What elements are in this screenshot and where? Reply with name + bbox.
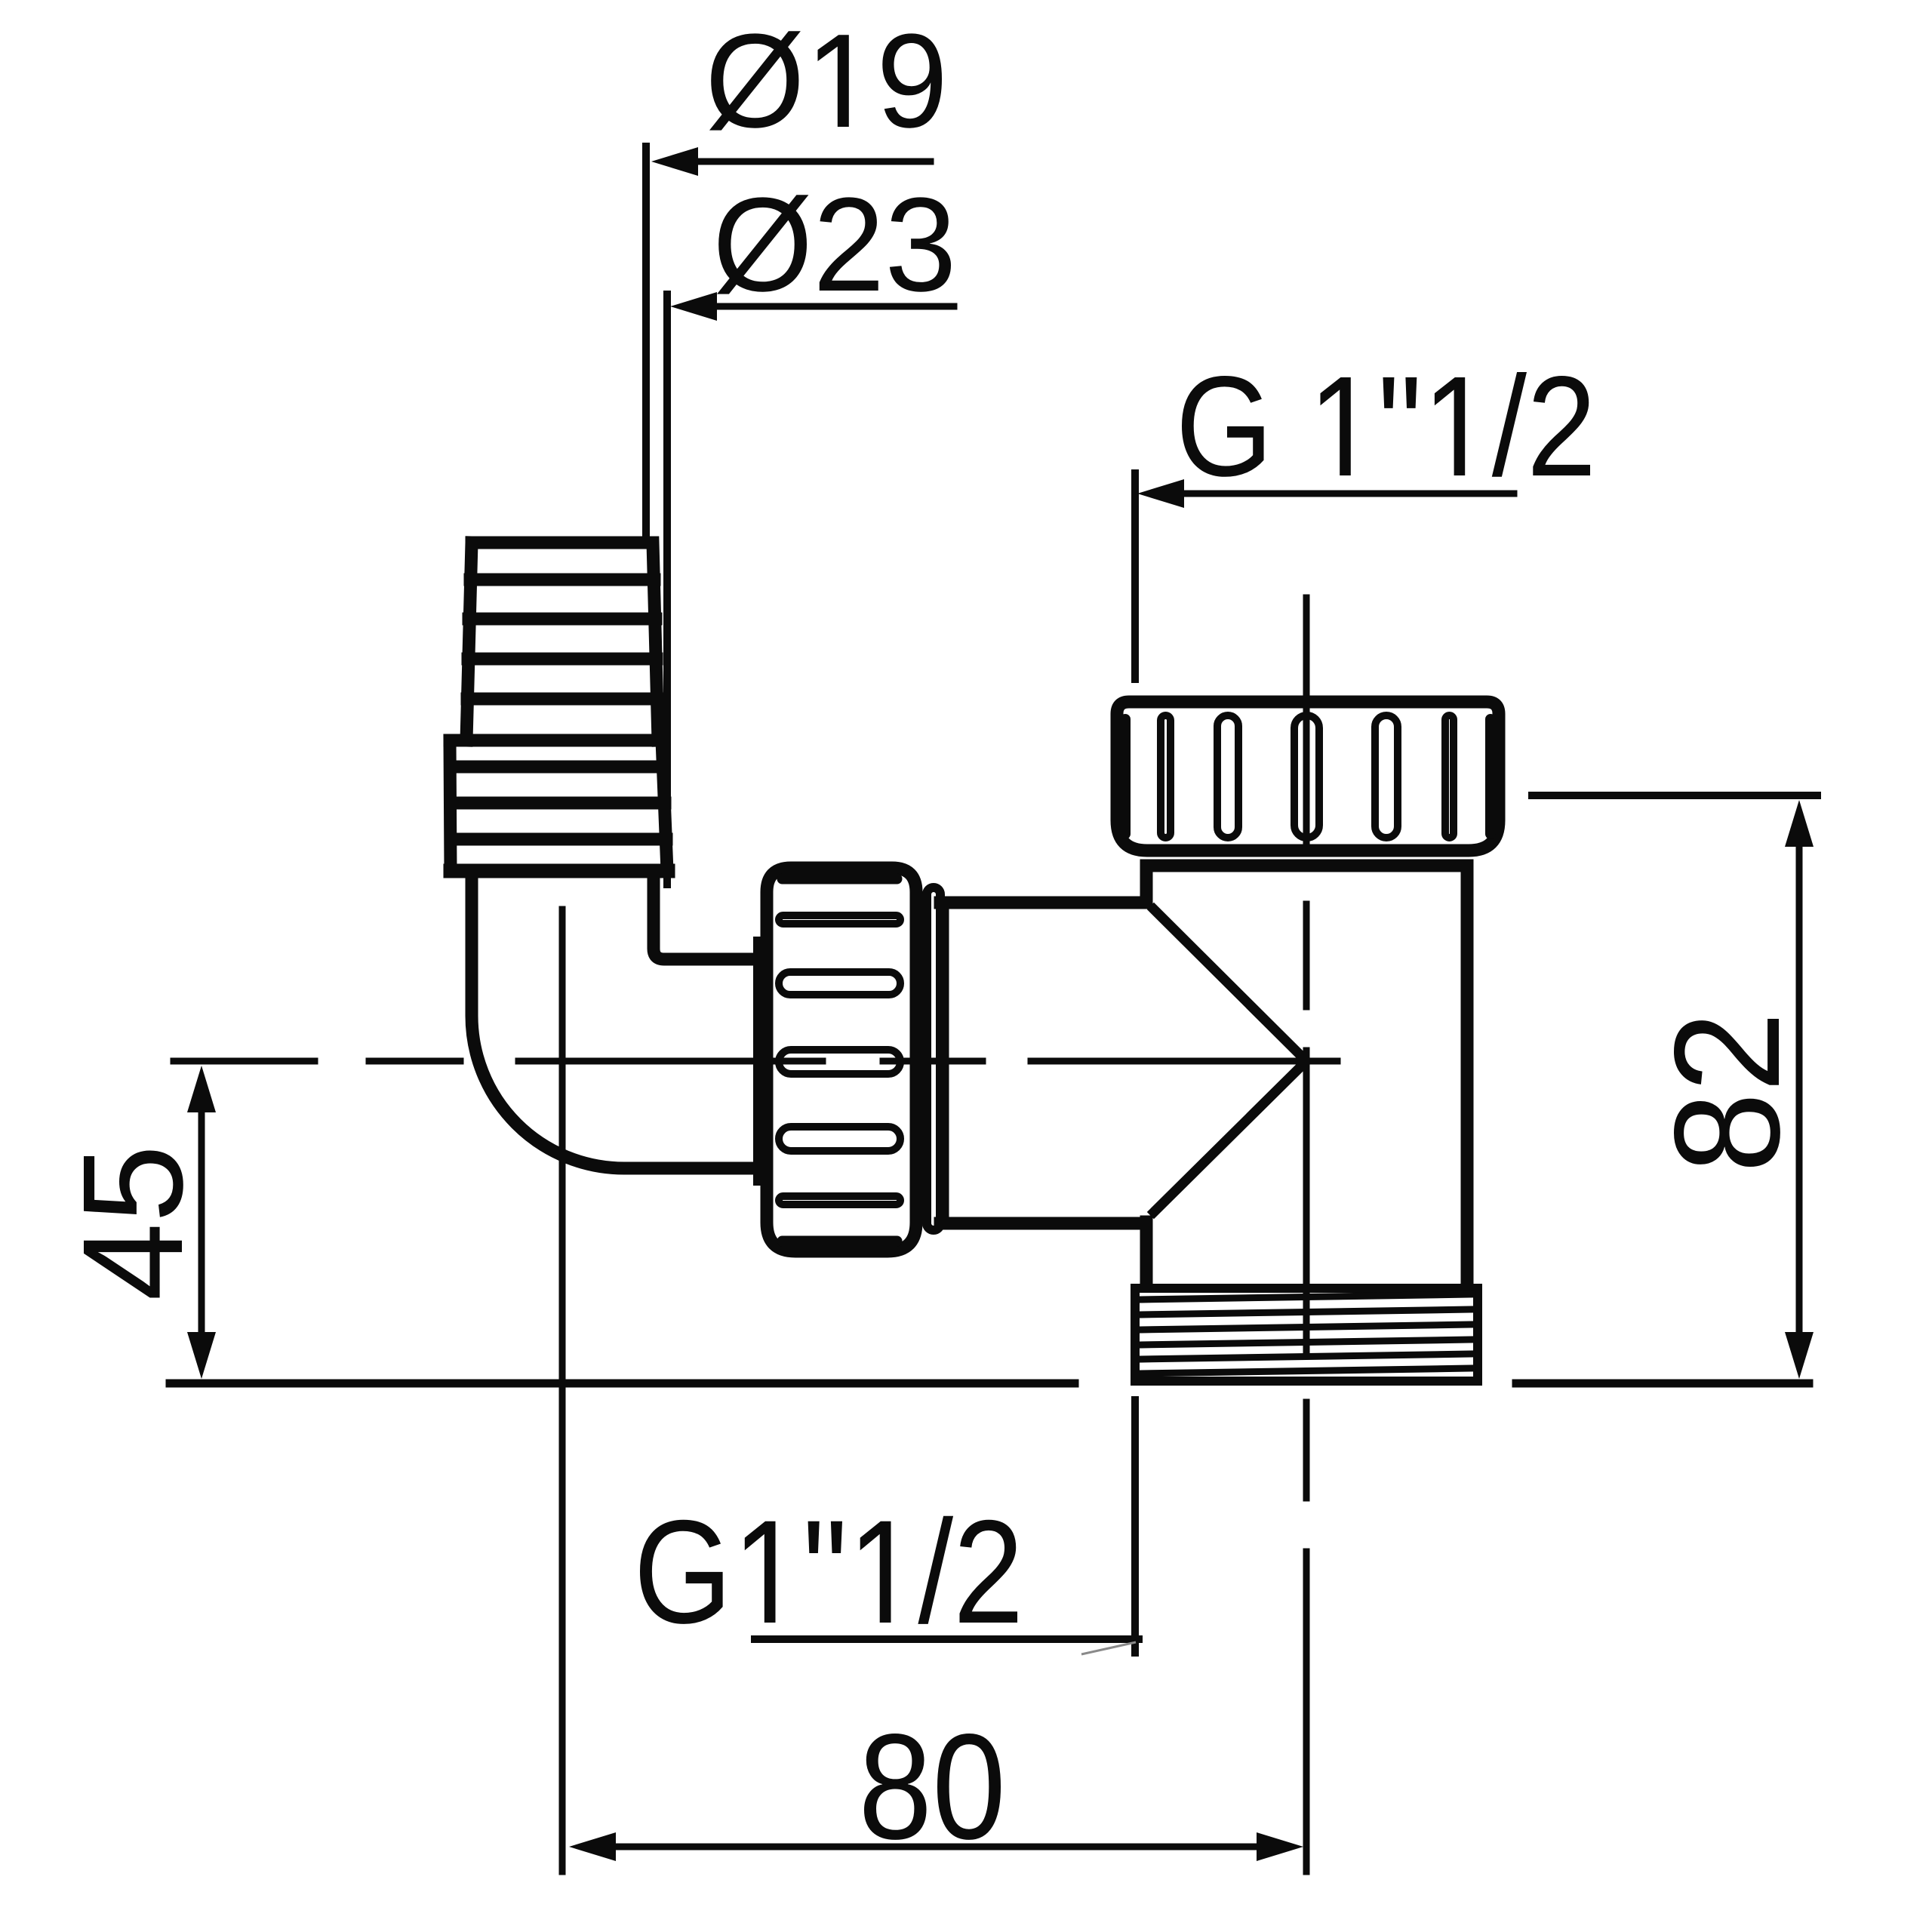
dim Ø19 extension line <box>642 146 650 541</box>
tee body shoulder under nut <box>1146 860 1467 872</box>
arrowhead 80 right <box>1257 1832 1303 1861</box>
top nut (vertical axis) body <box>1117 702 1499 851</box>
dim 45 line <box>198 1107 205 1337</box>
tee body left edge <box>1140 866 1153 1285</box>
hose barb bottom flange edge <box>451 864 668 878</box>
bottom reference line <box>170 1380 1809 1388</box>
union nut (horizontal axis) body <box>767 868 916 1251</box>
arrowhead 82 up <box>1785 800 1814 847</box>
arrowhead 82 down <box>1785 1332 1814 1379</box>
male thread fine lines <box>1140 1294 1472 1374</box>
male thread block <box>1135 1288 1478 1381</box>
top nut knurl slots <box>1124 715 1492 838</box>
G1.5 bottom label underline <box>755 1635 1139 1643</box>
dim Ø23 extension line <box>663 294 671 884</box>
label 82 rotated <box>1674 1019 1780 1167</box>
tee body right edge <box>1461 866 1474 1285</box>
dim Ø23 line <box>713 303 954 310</box>
leader hairline artifact <box>1081 1642 1136 1654</box>
label Ø23 <box>717 195 951 294</box>
G1.5 bottom leader line <box>1131 1400 1139 1653</box>
tee left branch <box>940 903 1146 1223</box>
centre line vertical barb axis <box>559 909 566 1872</box>
centre line vertical tee axis <box>1303 598 1310 1872</box>
elbow inner wall <box>654 871 764 959</box>
arrowhead Ø19 <box>651 147 698 176</box>
arrowhead G1.5 top <box>1137 479 1184 508</box>
hose barb lower section Ø23 <box>450 740 667 871</box>
dim G1.5 top line <box>1180 491 1514 497</box>
union nut rear flange bar <box>753 943 767 1179</box>
union nut knurl slots <box>779 878 900 1242</box>
dim 82 line <box>1796 841 1803 1337</box>
arrowhead Ø23 <box>670 292 717 321</box>
internal cone diagonals <box>1154 909 1306 1212</box>
dim Ø19 line <box>694 158 931 165</box>
elbow outer wall <box>472 871 764 1168</box>
washer band between nut and tee <box>927 888 940 1230</box>
dim 80 line <box>611 1844 1261 1850</box>
label G1"1/2 bottom <box>640 1516 1017 1624</box>
82 top extension line <box>1532 792 1817 799</box>
label 80 <box>864 1734 1001 1840</box>
centre line horizontal (main axis) <box>174 1058 1337 1065</box>
dim G1.5 top extension line <box>1131 473 1139 679</box>
hose barb upper section Ø19 <box>466 543 658 740</box>
arrowhead 45 down <box>187 1332 216 1379</box>
label G 1"1/2 top <box>1182 372 1590 477</box>
arrowhead 45 up <box>187 1066 216 1112</box>
label 45 rotated <box>84 1151 183 1298</box>
arrowhead 80 left <box>569 1832 616 1861</box>
label Ø19 <box>709 31 942 130</box>
